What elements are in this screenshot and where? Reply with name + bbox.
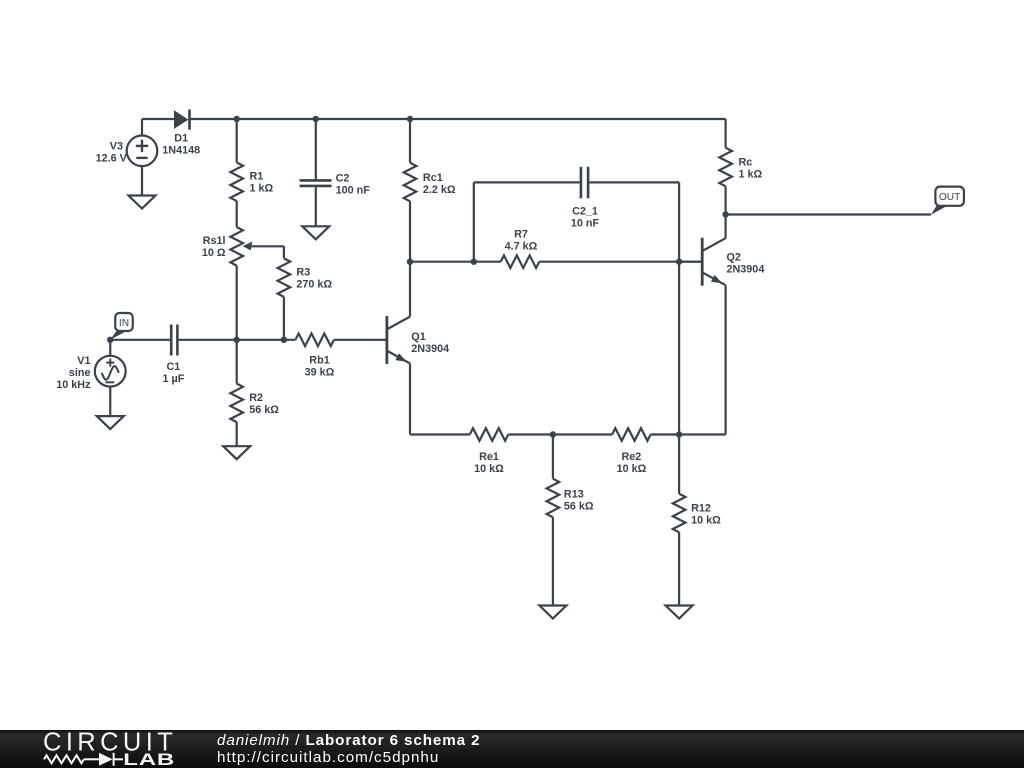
label R1 value [250,170,274,194]
wire Re2 to Q2 emitter [651,433,726,435]
label Re1 value [474,451,504,475]
svg-text:10 kHz: 10 kHz [56,379,91,391]
label Rc1 value [423,172,456,196]
port flag IN [110,313,133,340]
wire Q2 emitter [724,285,726,434]
svg-text:270 kΩ: 270 kΩ [296,279,332,291]
wire Q2 collector [724,215,726,239]
wire Q1 emitter [409,364,411,435]
ground [223,446,250,459]
label V3 value [96,140,128,164]
wire loop left vertical [473,182,475,261]
resistor R7 [501,255,540,268]
label V1 value [56,355,91,391]
resistor Rc1 [404,163,417,201]
label R12 value [691,503,721,527]
capacitor C2 [300,180,332,186]
svg-text:1N4148: 1N4148 [162,145,200,157]
label Rs1l value [202,235,226,259]
svg-text:OUT: OUT [939,192,961,203]
wire R2 bottom lead [236,422,238,446]
wire Rs1l bottom to base rail [236,266,238,340]
svg-text:56 kΩ: 56 kΩ [564,500,594,512]
wire R12 top lead [678,435,680,494]
svg-text:R2: R2 [249,392,263,404]
svg-text:IN: IN [119,318,129,329]
wire R1 to Rs1l [236,201,238,227]
ground [302,226,329,239]
resistor R12 [673,494,686,533]
junction OUT node [722,211,728,217]
svg-text:R13: R13 [564,488,584,500]
Rs1l wiper arrow [243,242,284,251]
sine source V1 [95,356,126,387]
svg-text:V3: V3 [110,140,123,152]
junction rail/R1 [234,116,240,122]
svg-text:10 nF: 10 nF [571,218,600,230]
svg-text:Q1: Q1 [411,331,425,343]
logo resistor-diode symbol [44,753,123,766]
wire R1 top lead [236,119,238,163]
potentiometer Rs1l [230,227,243,266]
svg-text:V1: V1 [77,355,90,367]
resistor R1 [230,163,243,201]
wire C2 top lead [315,119,317,179]
label R13 value [564,488,594,512]
svg-text:12.6 V: 12.6 V [96,152,128,164]
junction base rail/R1 chain [234,337,240,343]
junction collector node [407,259,413,265]
label Rc value [739,156,763,180]
svg-text:2.2 kΩ: 2.2 kΩ [423,184,456,196]
svg-text:R3: R3 [296,267,310,279]
wire R12 bottom lead [678,532,680,605]
svg-text:10 kΩ: 10 kΩ [691,515,721,527]
wire loop right vertical [678,182,680,434]
svg-text:Re2: Re2 [621,451,641,463]
wire rail D1 cathode to Rc [189,118,726,120]
svg-text:danielmih / Laborator 6 schema: danielmih / Laborator 6 schema 2 [217,732,480,749]
wire Rc bottom lead [724,186,726,214]
svg-text:Q2: Q2 [727,252,741,264]
ground [539,606,566,619]
label Q2 value [727,252,765,276]
diode D1 [174,110,190,130]
label C2_1 value [571,206,600,230]
svg-text:R7: R7 [514,229,528,241]
wire emitter rail to Re1 [410,433,470,435]
wire Q2 base [679,261,701,263]
svg-text:10 Ω: 10 Ω [202,247,226,259]
ground [666,606,693,619]
voltage source V3 [127,136,158,167]
wire V3 bottom stem [141,166,143,195]
svg-text:http://circuitlab.com/c5dpnhu: http://circuitlab.com/c5dpnhu [217,749,439,766]
wire R3 bottom to base rail [283,297,285,340]
svg-text:4.7 kΩ: 4.7 kΩ [505,241,538,253]
wire C1 to Rb1 [179,339,296,341]
resistor Rc [719,148,732,186]
svg-text:2N3904: 2N3904 [727,264,765,276]
wire rail left to D1 anode [142,118,175,120]
wire collector node to R7 [410,261,501,263]
label D1 value [162,133,200,157]
svg-text:R1: R1 [250,170,264,182]
capacitor C1 [171,325,177,356]
svg-text:56 kΩ: 56 kΩ [249,404,279,416]
ground [97,416,124,429]
label Rb1 value [305,355,335,379]
wire V1 top stem [109,340,111,356]
transistor Q1 [387,316,410,364]
svg-text:1 kΩ: 1 kΩ [250,182,274,194]
svg-text:10 kΩ: 10 kΩ [617,463,647,475]
wire Rb1 to Q1 base [334,339,386,341]
svg-text:LAB: LAB [123,750,175,768]
wire Re1 to Re2 [508,433,612,435]
wire Rc1 top lead [409,119,411,163]
resistor Rb1 [295,334,334,347]
junction loop left [471,259,477,265]
junction rail/Rc1 [407,116,413,122]
resistor R3 [278,258,291,297]
svg-text:sine: sine [69,367,91,379]
svg-text:R12: R12 [691,503,711,515]
resistor R13 [547,479,560,518]
svg-text:Rb1: Rb1 [309,355,329,367]
label Re2 value [617,451,647,475]
wire R13 bottom lead [552,517,554,605]
wire V1 bottom stem [109,387,111,417]
wire R7 to Q2 base [539,261,701,263]
junction loop right / Q2 base [676,259,682,265]
junction R12/loop [676,431,682,437]
port flag OUT [931,187,964,215]
wire V3 top stem [141,119,143,136]
wire C2 bottom lead [315,187,317,226]
junction rail/C2 [313,116,319,122]
label R7 value [505,229,538,253]
capacitor C2_1 [581,167,588,199]
svg-text:1 kΩ: 1 kΩ [739,168,763,180]
node IN [107,337,113,343]
svg-text:39 kΩ: 39 kΩ [305,367,335,379]
junction R13 [550,431,556,437]
wire Rc top lead [724,119,726,148]
label C2 value [336,172,371,196]
svg-text:1 µF: 1 µF [162,373,184,385]
wire loop top right [589,181,679,183]
svg-text:10 kΩ: 10 kΩ [474,463,504,475]
label R3 value [296,267,332,291]
svg-text:C1: C1 [166,361,180,373]
wire Q1 collector [409,262,411,317]
svg-text:Re1: Re1 [479,451,499,463]
label C1 value [162,361,184,385]
junction base rail/R3 [281,337,287,343]
svg-text:2N3904: 2N3904 [411,343,449,355]
svg-text:100 nF: 100 nF [336,184,371,196]
wire OUT rail [726,213,931,215]
resistor Re1 [470,428,509,441]
svg-text:Rs1l: Rs1l [203,235,226,247]
wire R2 top lead [236,340,238,384]
svg-text:Rc1: Rc1 [423,172,443,184]
ground [129,196,156,209]
resistor R2 [230,384,243,423]
label Q1 value [411,331,449,355]
svg-text:D1: D1 [174,133,188,145]
wire R13 top lead [552,435,554,479]
wire loop top left [474,181,580,183]
wire wiper down to R3 [283,246,285,258]
transistor Q2 [702,238,725,286]
svg-text:C2: C2 [336,172,350,184]
label R2 value [249,392,279,416]
resistor Re2 [612,428,650,441]
wire IN node to C1 [110,339,170,341]
wire Rc1 to collector node [409,201,411,261]
svg-text:C2_1: C2_1 [572,206,598,218]
svg-text:Rc: Rc [739,156,753,168]
